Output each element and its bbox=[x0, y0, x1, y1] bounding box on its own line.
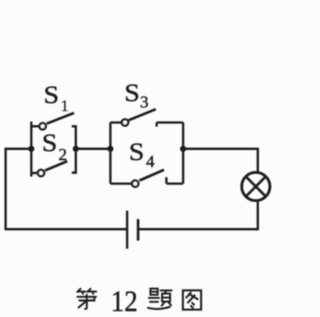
svg-text:12: 12 bbox=[111, 286, 138, 317]
left block left bar bbox=[30, 122, 32, 177]
label S3 bbox=[124, 78, 148, 111]
switch S2 lever bbox=[45, 161, 67, 170]
switch S3 lever bbox=[129, 109, 156, 120]
svg-text:4: 4 bbox=[146, 152, 155, 171]
node junction dot left bar bbox=[28, 146, 34, 152]
right block bottom branch left segment bbox=[110, 182, 131, 184]
svg-text:1: 1 bbox=[61, 98, 69, 115]
label S4 bbox=[129, 137, 155, 171]
wire lamp top to right block bbox=[183, 149, 258, 172]
right block top branch left segment bbox=[110, 121, 121, 123]
switch S4 pivot circle bbox=[132, 180, 138, 186]
right block left bar bbox=[109, 123, 111, 184]
label S2 bbox=[42, 129, 67, 164]
caption character 题 bbox=[148, 289, 172, 309]
lamp X stroke 1 bbox=[246, 177, 266, 197]
svg-text:2: 2 bbox=[59, 145, 68, 164]
node junction dot right block input bbox=[107, 146, 113, 152]
svg-text:S: S bbox=[44, 80, 60, 108]
node junction dot left block output bbox=[73, 146, 79, 152]
battery long plate (+) bbox=[126, 211, 128, 249]
svg-text:S: S bbox=[124, 78, 140, 106]
svg-text:S: S bbox=[129, 137, 145, 165]
label S1 bbox=[44, 80, 69, 114]
left block right contact bracket bbox=[72, 126, 76, 172]
switch S1 pivot circle bbox=[39, 123, 45, 129]
node junction dot right block output bbox=[180, 146, 186, 152]
lamp L1 circle bbox=[242, 172, 270, 200]
wire bottom-right segment bbox=[139, 202, 258, 230]
svg-text:S: S bbox=[42, 129, 58, 157]
middle wire between blocks bbox=[76, 148, 111, 150]
left block bottom branch stub bbox=[31, 172, 37, 174]
wire left loop: input to bottom-left corner bbox=[6, 149, 127, 229]
svg-text:3: 3 bbox=[140, 92, 149, 111]
switch S2 pivot circle bbox=[38, 170, 44, 176]
lamp X stroke 2 bbox=[246, 177, 266, 197]
right block bottom branch right segment with contact tick of S4 bbox=[166, 177, 183, 183]
switch S3 pivot circle bbox=[122, 119, 128, 125]
right block top branch right segment with contact tick of S3 bbox=[157, 123, 184, 127]
left block top branch stub bbox=[31, 125, 38, 127]
caption character 第 bbox=[77, 289, 96, 309]
caption character 图 bbox=[183, 290, 201, 309]
switch S1 lever bbox=[47, 113, 74, 124]
switch S4 lever bbox=[139, 170, 164, 181]
right block right bar bbox=[182, 123, 184, 184]
battery short plate (-) bbox=[137, 219, 140, 241]
